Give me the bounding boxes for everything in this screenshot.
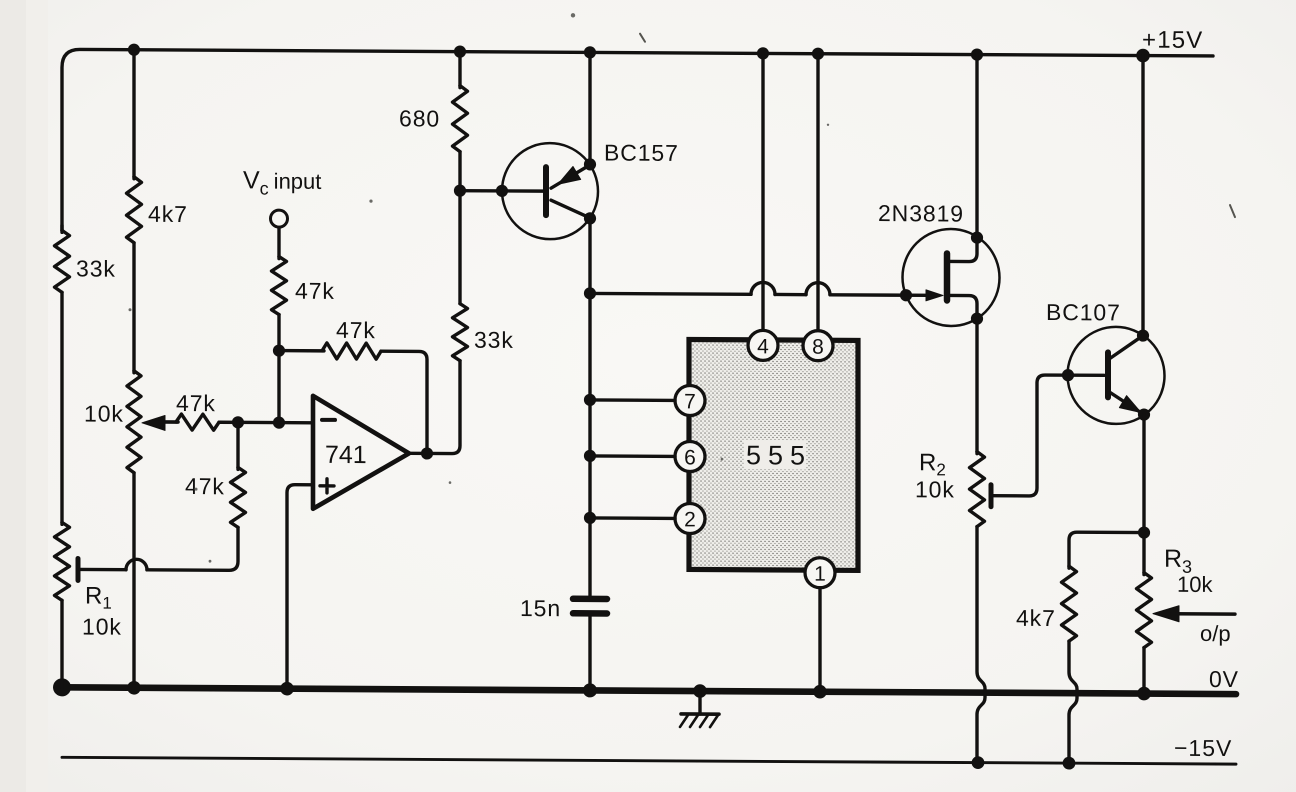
svg-text:33k: 33k [474,327,514,353]
-15V supply rail [62,757,1236,764]
BC107 collector line [1110,335,1143,358]
wire node down [236,422,239,469]
BC107 base bar [1105,352,1111,397]
wire BC157 emitter to +15V [588,52,591,164]
BC107 emitter arrow (NPN outward) [1119,396,1141,413]
wire R3 to 0V [1142,648,1145,694]
junction dots on +15V rail [128,44,140,56]
wire 10k pot to 0V [132,473,135,688]
op-amp U1 741 triangle [313,396,409,510]
wire BC107 collector to +15V [1141,56,1144,336]
wire +15V to 4k7 [132,50,135,179]
svg-text:47k: 47k [185,473,225,499]
svg-text:10k: 10k [84,400,124,426]
wire left branch upper (from +15V corner) [60,225,63,232]
svg-text:BC107: BC107 [1046,299,1121,325]
resistor 680 [453,86,468,152]
svg-text:BC157: BC157 [604,139,679,165]
transistor Q2 2N3819 circle [903,229,1000,327]
wire to pin 2 [590,516,675,520]
wire 2N3819 drain to +15V [975,55,978,238]
capacitor 15n top plate [573,596,607,603]
2N3819 source lead [950,295,977,317]
svg-text:7: 7 [684,390,696,413]
gate boundary dot [900,289,912,301]
node dot feedback takeoff [273,344,285,356]
ground hatches [680,715,718,727]
op-amp non-inverting input symbol [320,479,334,493]
wire 47k to op-amp inverting input [219,421,313,425]
svg-text:10k: 10k [82,613,122,639]
R1 wiper tap bar [76,558,81,580]
wire 4k7 crossing 0V to -15V [1069,641,1077,763]
555 pin 7 circle [675,385,705,415]
svg-text:33k: 33k [76,255,116,281]
potentiometer 10k body [127,371,141,473]
JFET gate arrow [926,290,943,301]
0V rail [62,687,1236,694]
node dot Vc branch junction [273,416,285,428]
resistor 47k (node to R1 wiper) [231,467,246,527]
555 pin 4 circle [748,330,778,360]
Vc input terminal [271,210,288,227]
BC157 emitter arrow (PNP into base) [558,166,581,184]
wire 680 bottom to base junction [458,152,461,191]
wire +15V to 555 pin 8 [816,54,819,331]
wire R1 to 0V [60,600,63,687]
wire op-amp output [409,360,460,453]
wire non-inverting input to 0V [287,485,313,689]
BC157 collector line [551,200,590,218]
svg-text:15n: 15n [520,595,561,621]
resistor 33k (left) [55,230,70,292]
wire collector node down to cap [588,293,591,595]
junction dot emitter/4k7 [1138,526,1150,538]
node dot op-amp output [421,447,433,459]
wire emitter node to 4k7 [1069,532,1144,568]
wire R2 wiper to BC107 base [991,375,1104,497]
wire 33k to R1 [60,292,63,524]
svg-text:10k: 10k [915,476,955,502]
svg-text:10k: 10k [1177,572,1213,597]
svg-text:2: 2 [684,508,696,531]
svg-text:4k7: 4k7 [148,201,188,227]
BC157 emitter line [551,165,590,189]
wire to pin 6 [590,454,675,458]
555 pin 6 circle [675,441,705,471]
555 pin 2 circle [675,503,705,533]
wire Vc terminal to 47k [277,228,280,259]
transistor Q3 BC107 circle [1068,327,1165,425]
wire node to feedback resistor [279,349,324,353]
wire cap to 0V [588,616,591,690]
resistor 4k7 (left) [127,177,142,243]
IC 555 body [689,339,858,570]
resistor R3 10k body [1137,573,1152,648]
op-amp inverting input symbol [322,418,335,422]
wire collector node to JFET gate with hops [590,292,751,296]
svg-text:6: 6 [684,446,696,469]
svg-text:47k: 47k [176,390,216,416]
wire 33k to base junction [458,191,461,304]
wire +15V to 555 pin 4 [761,53,764,330]
555 pin 8 circle [803,331,833,361]
BC107 emitter line [1110,392,1144,414]
BC157 boundary dots [496,185,508,197]
svg-text:47k: 47k [336,317,376,343]
svg-text:1: 1 [814,563,826,586]
wire R2 bottom crossing 0V [977,527,985,763]
svg-text:555: 555 [746,440,812,470]
ground dot [693,684,707,698]
scan edge strip [0,0,26,792]
wire BC107 emitter down [1142,415,1145,575]
svg-text:741: 741 [325,441,367,469]
resistor 47k (Vc input) [272,257,287,315]
2N3819 boundary dots [971,231,983,243]
wire feedback to op-amp output [381,351,427,453]
wire arrow to 47k [160,420,178,424]
+15V supply rail [62,49,1213,237]
wire 47k down and left to R1 wiper with hop [147,527,238,571]
0V rail junction dots [53,678,71,696]
2N3819 channel bar [944,253,951,300]
wire 2N3819 source to R2 [975,319,978,454]
wiper arrow into 10k pot [142,415,165,430]
transistor Q1 BC157 circle [502,143,598,240]
svg-text:680: 680 [399,105,440,131]
svg-text:o/p: o/p [1200,621,1231,646]
wire BC157 collector down [588,218,591,295]
resistor 47k (pot wiper to node) [176,414,219,430]
o/p line [1172,612,1235,616]
wire 47k to node [277,315,280,423]
resistor R1 10k body [55,522,70,600]
svg-text:+15V: +15V [1142,27,1204,54]
ground stem [698,691,701,714]
label 555 halo [744,440,806,469]
junction dots pins 7 6 2 [584,394,596,406]
BC157 base bar [543,167,549,215]
scan specks [129,11,1236,569]
svg-text:0V: 0V [1209,666,1239,692]
node dot base junction [454,185,466,197]
resistor R2 10k body [970,452,985,527]
capacitor 15n bottom plate [573,610,607,617]
node dot 47k junction [232,416,244,428]
svg-text:4: 4 [757,335,769,358]
resistor 33k (right) [453,304,468,361]
BC107 boundary dots [1062,369,1074,381]
555 pin 1 circle [805,558,835,588]
svg-text:−15V: −15V [1174,735,1232,761]
resistor 47k feedback [322,343,381,359]
svg-text:2N3819: 2N3819 [878,200,964,226]
R3 wiper arrow from o/p [1153,606,1179,622]
2N3819 drain lead [950,237,977,261]
wire 4k7 to 10k pot [132,243,135,373]
svg-text:47k: 47k [295,278,335,304]
svg-text:8: 8 [812,336,824,359]
-15V rail junction dots [972,756,985,769]
R2 wiper tap bar [989,485,994,507]
wire 680 top [458,52,461,88]
resistor 4k7 (right) [1062,566,1077,641]
wire 555 pin 1 to 0V [818,588,821,692]
ground bar [681,712,719,716]
wire to pin 7 [590,398,675,402]
svg-text:4k7: 4k7 [1016,605,1056,631]
node dot collector line [584,287,596,299]
wire base junction to BC157 base [460,189,544,193]
